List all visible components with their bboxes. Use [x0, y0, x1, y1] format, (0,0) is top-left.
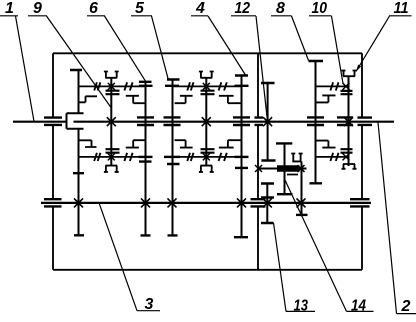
leader 9 — [47, 16, 112, 108]
svg-text:4: 4 — [195, 0, 205, 17]
gear 4 caps — [234, 76, 248, 238]
sleeve cluster3 on shaft I — [337, 117, 353, 125]
aux junction cap gear 4 lower — [235, 156, 249, 158]
x joint cluster1 on aux upper — [108, 83, 115, 90]
underlines top row — [0, 15, 412, 17]
input gear caps — [70, 70, 84, 235]
clutch slashes lower cluster2 — [187, 153, 227, 161]
leader 2 — [378, 122, 397, 313]
x gear 5 leg on countershaft — [168, 198, 177, 207]
gear 13 on countershaft — [266, 184, 268, 224]
leader 8 — [292, 16, 309, 61]
aux line upper cluster2 — [172, 85, 242, 87]
aux line upper cluster3 — [316, 85, 349, 87]
x gear 4 leg on countershaft — [237, 198, 246, 207]
clutch slashes upper cluster2 — [187, 82, 227, 90]
svg-text:8: 8 — [276, 0, 285, 17]
svg-text:9: 9 — [33, 0, 42, 17]
x joint cluster2 on aux lower — [203, 153, 210, 160]
gear 12 vertical — [267, 83, 269, 161]
gear 6 caps — [139, 82, 152, 236]
svg-text:5: 5 — [135, 0, 145, 17]
x intermediate shaft at wall — [255, 165, 262, 172]
bearing inner wall / shaft I — [255, 118, 264, 125]
bearing left wall / shaft I — [44, 118, 62, 125]
leader 5 — [152, 16, 169, 79]
clutch jaw lower right cluster2 — [219, 140, 241, 147]
aux junction cap gear 6 lower — [139, 156, 153, 158]
gear 8 sleeve on shaft I — [307, 117, 324, 125]
gear 6 (cluster1 right) vertical — [145, 82, 147, 236]
gear 12 caps — [261, 83, 276, 161]
shaft I (input, main) — [13, 121, 394, 123]
svg-text:13: 13 — [294, 297, 309, 314]
gearbox housing — [53, 53, 362, 269]
gear 14 lower on intermediate shaft — [284, 171, 286, 195]
clutch jaw lower left cluster2 — [175, 140, 193, 147]
aux line lower cluster1 — [79, 156, 146, 158]
sliding gear cluster3 vertical — [348, 76, 350, 166]
clutch jaw lower left cluster3 — [316, 141, 336, 148]
svg-text:14: 14 — [351, 297, 366, 314]
bearing right wall / countershaft — [350, 199, 370, 206]
gear 8 caps — [309, 61, 324, 183]
x same gear on countershaft — [297, 198, 306, 207]
shift fork upper cluster3 — [342, 71, 357, 77]
svg-text:10: 10 — [312, 0, 328, 17]
gear 8 (cluster3 left) vertical — [315, 61, 317, 183]
clutch jaw upper left cluster3 — [316, 95, 336, 102]
x joint cluster1 on aux lower — [108, 153, 115, 160]
hub caps cluster1 upper — [106, 91, 120, 95]
leader 14 — [285, 179, 347, 311]
clutch slashes upper cluster1 — [94, 82, 132, 90]
svg-text:1: 1 — [5, 0, 14, 17]
x joint cluster3 on aux upper — [343, 83, 350, 90]
clutch slashes lower cluster1 — [94, 153, 132, 161]
leader 13 — [274, 223, 287, 312]
clutch jaw lower right cluster1 — [126, 140, 146, 147]
shaft III (countershaft) — [41, 202, 371, 204]
inner wall — [257, 53, 259, 269]
shift fork upper cluster1 — [104, 72, 119, 78]
x joint cluster3 on aux lower — [343, 153, 350, 160]
hub caps cluster2 lower — [201, 149, 215, 153]
clutch slashes upper cluster3 — [330, 82, 338, 90]
clutch jaw upper left (input-cluster1) — [79, 96, 98, 102]
leader 6 — [105, 16, 146, 81]
sleeve caps intermediate shaft — [277, 166, 300, 170]
leader 10 — [332, 16, 344, 84]
svg-text:3: 3 — [145, 296, 154, 313]
hub caps cluster3 upper — [341, 91, 353, 94]
underlines bottom row — [137, 311, 416, 314]
shift fork upper cluster2 — [199, 72, 214, 78]
input coupling bracket — [67, 113, 84, 128]
gear 4 (cluster2 right) vertical — [241, 76, 243, 238]
clutch jaw upper left cluster2 — [175, 96, 193, 103]
svg-text:12: 12 — [235, 0, 251, 17]
leader 1 — [16, 16, 35, 121]
x joint cluster3 on shaft I — [344, 117, 353, 126]
leader 12 — [256, 16, 267, 121]
aux line lower cluster3 — [316, 156, 349, 158]
gear 5 caps — [167, 80, 180, 236]
aux junction cap gear 6 upper — [139, 85, 153, 87]
shift fork lower cluster2 — [199, 166, 214, 172]
sliding gear block cluster1 vertical — [110, 78, 112, 166]
gear 5 (cluster2 left) vertical — [172, 80, 174, 236]
gear 5 sleeve on shaft I — [164, 117, 181, 125]
input gear (1) vertical — [78, 70, 80, 235]
hub caps cluster2 upper — [201, 91, 215, 95]
x joint cluster2 on shaft I — [202, 117, 211, 126]
bearing inner wall / countershaft — [251, 199, 266, 206]
x gear on intermediate shaft — [298, 165, 305, 172]
clutch jaw right of intermediate sleeve — [287, 154, 303, 175]
leader 3 — [99, 203, 137, 311]
gear 4 sleeve on shaft I — [233, 117, 250, 125]
hub caps cluster3 lower — [341, 149, 353, 153]
x joint cluster1 on shaft I — [107, 117, 116, 126]
aux line lower cluster2 — [172, 156, 242, 158]
hub caps cluster1 lower — [106, 149, 120, 153]
shaft II (intermediate) — [257, 168, 307, 170]
clutch jaw upper right cluster1 — [126, 96, 146, 103]
bearing right wall / shaft I — [358, 118, 373, 125]
gear upper on intermediate shaft — [284, 143, 286, 166]
gear 6 sleeve on shaft I — [137, 117, 154, 125]
aux junction cap gear 4 upper — [235, 85, 249, 87]
sliding gear block cluster2 vertical — [205, 78, 207, 166]
x fixed joint input gear on countershaft — [74, 198, 83, 207]
svg-text:2: 2 — [401, 298, 411, 315]
bearing left wall / countershaft — [44, 199, 62, 206]
clutch jaw upper right cluster2 — [219, 96, 241, 103]
aux line upper cluster1 — [79, 85, 146, 87]
shift fork lower cluster3 — [342, 164, 357, 169]
aux junction cap gear 5 upper — [165, 85, 179, 87]
x gear 12 on shaft I — [263, 117, 272, 126]
leader 4 — [208, 16, 246, 75]
gear on intermediate shaft right (to countershaft) — [301, 161, 303, 215]
svg-text:11: 11 — [394, 0, 409, 17]
aux junction cap gear 5 lower — [164, 156, 180, 158]
x gear 6 leg on countershaft — [141, 198, 150, 207]
clutch jaw lower left (input-cluster1) — [79, 140, 97, 147]
shift fork lower cluster1 — [104, 166, 119, 172]
clutch slashes lower cluster3 — [330, 153, 338, 161]
leader 11 with arrow — [356, 16, 390, 72]
x gear 13 on countershaft — [263, 198, 272, 207]
svg-text:6: 6 — [89, 0, 98, 17]
x joint cluster2 on aux upper — [203, 83, 210, 90]
